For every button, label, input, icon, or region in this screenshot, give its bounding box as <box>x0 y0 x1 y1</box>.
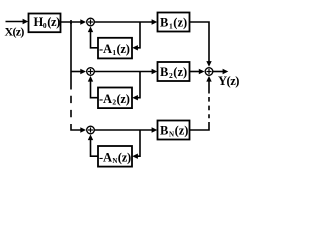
wire feedback -A1 to adder1 <box>88 26 98 47</box>
block -AN(z) <box>98 146 132 167</box>
wire H0 to adder1 <box>61 19 87 24</box>
svg-text:BN(z): BN(z) <box>160 124 188 139</box>
wire adder1 to B1 <box>95 19 158 24</box>
wire right bus dashed middle <box>208 97 210 118</box>
wire input arrow into H0 <box>6 19 29 24</box>
wire adder2 to B2 <box>95 69 158 74</box>
wire right bus solid lower with corner from BN out <box>190 122 210 130</box>
block BN(z) <box>158 121 190 140</box>
wire tap down to -AN <box>132 130 140 159</box>
block H0(z) <box>29 14 61 33</box>
wire left vertical bus solid upper <box>70 22 72 90</box>
wire feedback -A2 to adder2 <box>88 76 98 98</box>
wire output arrow Y <box>213 69 228 74</box>
svg-text:X(z): X(z) <box>5 25 25 39</box>
svg-text:B2(z): B2(z) <box>160 65 187 80</box>
node branch junction at x=71 y=22 <box>70 20 72 24</box>
adder sumN <box>87 126 95 134</box>
svg-text:Y(z): Y(z) <box>218 74 239 88</box>
wire branch to adder2 <box>71 69 86 74</box>
wire right bus arrow up into output adder <box>206 76 211 94</box>
wire arrow into adder N <box>80 127 86 132</box>
wire B2 out to output adder <box>190 69 205 74</box>
svg-text:H0(z): H0(z) <box>34 15 61 30</box>
svg-text:B1(z): B1(z) <box>160 16 187 31</box>
wire feedback -AN to adderN <box>88 134 98 156</box>
adder sum2 <box>87 68 95 76</box>
wire left vertical bus dashed middle <box>70 96 72 118</box>
wire B1 out to output bus down to output adder <box>190 22 212 67</box>
block -A1(z) <box>98 38 132 59</box>
block B2(z) <box>158 62 190 81</box>
block B1(z) <box>158 13 190 32</box>
wire tap down to -A1 <box>132 22 140 51</box>
wire tap down to -A2 <box>132 72 140 101</box>
wire adderN to BN <box>95 127 158 132</box>
wire left vertical bus solid lower with corner to row N <box>71 124 82 130</box>
adder output sum <box>205 68 213 76</box>
block -A2(z) <box>98 88 132 109</box>
adder sum1 <box>87 18 95 26</box>
